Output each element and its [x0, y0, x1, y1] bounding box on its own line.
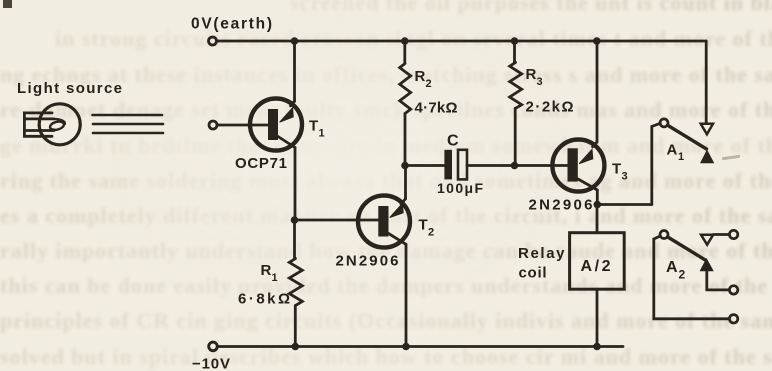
node junction T1/T2 base/R1 [291, 216, 299, 224]
resistor R3 [510, 41, 522, 166]
wire A2 tip to middle terminal [707, 271, 730, 290]
wire A1 common riser [652, 123, 661, 204]
svg-text:2: 2 [679, 268, 686, 282]
svg-text:0V(earth): 0V(earth) [191, 16, 272, 33]
svg-text:1: 1 [319, 128, 325, 140]
transistor T2 emitter lead with arrow [390, 199, 406, 218]
transistor T2 base bar [378, 206, 388, 237]
wire T3 collector down [596, 190, 599, 205]
smudge mark [722, 155, 740, 160]
label R2 [415, 68, 432, 90]
label -10V [192, 356, 230, 371]
svg-text:A: A [667, 142, 678, 159]
transistor T3 collector lead [578, 179, 597, 190]
wire node to T3 base [515, 164, 568, 167]
contact A1 moving tip [700, 150, 714, 164]
node junction T3-rail [593, 37, 601, 45]
resistor R1 [289, 220, 302, 347]
node junction T3/relay/A1 [594, 201, 602, 209]
contact A1 armature [668, 125, 707, 149]
label 2N2906 of T3 [529, 197, 593, 214]
node junction T2 collector-rail [402, 343, 410, 351]
node junction R3-rail [511, 37, 519, 45]
transistor T1 collector lead [278, 137, 295, 148]
wire T1 emitter to rail [293, 41, 296, 102]
label Light source [17, 80, 122, 97]
transistor T1 base bar [268, 109, 278, 140]
transistor T1 circle [250, 99, 302, 151]
svg-text:3: 3 [537, 76, 543, 88]
node junction T1-rail [291, 37, 299, 45]
label Relay coil [518, 245, 565, 282]
transistor T3 emitter lead with arrow [579, 142, 597, 164]
wire node to capacitor [405, 164, 444, 167]
contact A1 fixed contact [701, 124, 713, 135]
label T2 [419, 217, 435, 239]
transistor T2 circle [358, 196, 410, 248]
label R3 [526, 66, 543, 88]
label 100uF [437, 180, 483, 196]
light rays [93, 115, 164, 133]
contact A2 pivot [660, 231, 668, 239]
svg-text:A/2: A/2 [581, 258, 611, 275]
label T1 [309, 118, 325, 140]
contact A2 armature [668, 237, 706, 260]
svg-text:100μF: 100μF [437, 180, 483, 196]
svg-text:1: 1 [678, 151, 684, 163]
transistor T3 base bar [568, 148, 578, 181]
wire T2 collector down to rail [405, 244, 408, 346]
lamp filament [49, 119, 65, 131]
node junction R2-rail [401, 37, 409, 45]
svg-text:R: R [415, 68, 426, 85]
svg-text:Relay: Relay [518, 245, 565, 262]
relay coil wire top [596, 205, 599, 233]
label 2.2k ohm [526, 99, 574, 116]
relay coil box A/2 [570, 233, 625, 290]
node junction relay-rail [593, 343, 601, 351]
label A2 [666, 259, 686, 282]
svg-text:T: T [419, 217, 428, 234]
node A2 NO terminal [729, 286, 737, 294]
svg-text:2·2kΩ: 2·2kΩ [526, 99, 574, 116]
wire A2 fixed contact to terminal [713, 233, 729, 236]
lamp cap [24, 113, 54, 136]
node -10V terminal [209, 342, 218, 351]
label A1 [667, 142, 685, 164]
label 4.7k ohm [415, 100, 458, 117]
resistor R2 [400, 41, 411, 166]
wire bottom -10V rail [218, 345, 623, 348]
wire capacitor to R3 node [467, 164, 515, 167]
svg-text:R: R [261, 262, 272, 279]
node A2 common terminal [729, 315, 737, 323]
svg-text:4·7kΩ: 4·7kΩ [415, 100, 458, 117]
svg-text:coil: coil [519, 265, 547, 282]
contact A2 moving tip [700, 258, 714, 271]
transistor T2 collector lead [389, 234, 407, 245]
wire T2 emitter up to node [404, 166, 407, 199]
label 6.8k ohm [238, 291, 290, 308]
label R1 [261, 262, 278, 284]
svg-text:T: T [612, 161, 621, 178]
relay coil wire bottom [596, 289, 599, 346]
svg-text:Light source: Light source [17, 80, 122, 97]
transistor T3 circle [552, 140, 604, 192]
label A/2 [581, 258, 611, 275]
svg-text:−10V: −10V [192, 356, 230, 371]
label 0V(earth) [191, 16, 272, 33]
transistor T1 emitter lead with arrow [280, 101, 295, 122]
svg-text:A: A [666, 259, 678, 276]
svg-text:2: 2 [426, 78, 432, 90]
svg-text:2: 2 [428, 227, 434, 239]
label C [447, 133, 459, 150]
node junction R3/T3 base [511, 162, 519, 170]
wire node to T2 base [295, 219, 379, 222]
label T3 [612, 161, 628, 183]
lamp bulb envelope [39, 104, 80, 145]
svg-text:2N2906: 2N2906 [529, 197, 593, 214]
node A2 NC terminal [729, 230, 737, 238]
capacitor C plates [444, 150, 467, 180]
svg-text:T: T [309, 118, 318, 135]
svg-text:R: R [526, 66, 537, 83]
svg-text:2N2906: 2N2906 [336, 253, 399, 270]
svg-text:3: 3 [622, 171, 628, 183]
svg-text:OCP71: OCP71 [235, 155, 287, 172]
node junction R1-rail [292, 343, 300, 351]
wire T1 collector down [294, 148, 297, 221]
svg-text:1: 1 [272, 272, 278, 284]
wire A2 common to terminal [654, 236, 730, 319]
wire right drop to A1 fixed contact [705, 41, 708, 123]
node junction R2/C/T2 emitter [401, 162, 409, 170]
svg-text:C: C [447, 133, 459, 150]
wire base terminal to T1 [217, 124, 268, 127]
label OCP71 [235, 155, 287, 172]
label 2N2906 of T2 [336, 253, 399, 270]
wire T3 emitter up to rail [596, 41, 599, 142]
svg-text:6·8kΩ: 6·8kΩ [238, 291, 290, 308]
node 0V terminal [209, 37, 217, 45]
contact A1 pivot [660, 119, 668, 127]
wire junction to A1 riser [597, 203, 652, 206]
node T1 base terminal [209, 121, 217, 129]
page corner mark [3, 0, 12, 8]
contact A2 fixed contact [701, 235, 713, 245]
wire top 0V rail [217, 40, 706, 43]
